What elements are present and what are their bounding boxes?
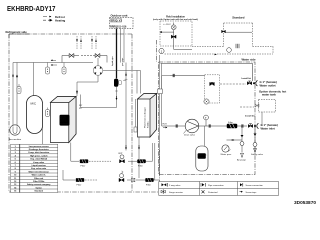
- svg-text:Standard: Standard: [232, 16, 244, 20]
- outlet junction: [253, 82, 255, 84]
- liquid line filter (black): [114, 79, 118, 87]
- drain valve: [184, 131, 187, 134]
- thermostatic valve circle: [171, 25, 176, 30]
- stop valve gas: [69, 54, 74, 58]
- 3wv motor: [204, 99, 209, 104]
- safety valve column: [254, 126, 256, 148]
- filter upper-right (black): [137, 159, 146, 163]
- refrigerant piping: inner loop top: [13, 62, 93, 64]
- second pipe down: [16, 63, 18, 126]
- svg-text:R3T: R3T: [119, 153, 124, 155]
- svg-text:Comp. inlet thermistor: Comp. inlet thermistor: [28, 151, 49, 154]
- air purge tee: [241, 135, 244, 137]
- expansion vessel stem: [203, 126, 205, 146]
- expansion valve E1: [119, 153, 125, 163]
- dashed pipe to tank: [240, 106, 254, 108]
- svg-text:Filter R134a: Filter R134a: [33, 180, 45, 183]
- svg-text:Safety valve: Safety valve: [251, 153, 264, 156]
- svg-text:liquid pipe: liquid pipe: [112, 55, 114, 66]
- dashed from 3wv to outlet: [220, 83, 246, 85]
- legend screw connection symbol: [240, 183, 264, 187]
- svg-text:(only with Option tank with ho: (only with Option tank with hot and cold…: [153, 18, 198, 21]
- water return into HX: [158, 89, 163, 94]
- shut-off valve: [171, 35, 176, 38]
- legend pipe connection symbol: [201, 183, 224, 187]
- svg-text:Filter: Filter: [81, 165, 86, 168]
- union a: [176, 124, 178, 127]
- svg-text:Water outlet: Water outlet: [260, 83, 276, 87]
- field pipe down right: [174, 46, 192, 49]
- thermistor R1T: [48, 63, 65, 68]
- legend shut-off valve symbol: [162, 183, 182, 187]
- svg-text:High press. switch: High press. switch: [30, 154, 48, 157]
- pipe to left with arrow: [160, 31, 174, 33]
- union b: [209, 124, 211, 127]
- water pipes HX to top: [159, 55, 161, 175]
- water filter (black): [227, 124, 238, 129]
- refrigerant side box: [9, 34, 160, 192]
- symbol legend table: [159, 182, 279, 196]
- flow arrow on link: [215, 54, 218, 56]
- expansion vessel: [196, 146, 208, 171]
- aquastat valve stem: [173, 23, 175, 47]
- svg-text:Surge arrester: Surge arrester: [169, 191, 183, 194]
- svg-text:Standard: Standard: [34, 190, 43, 193]
- svg-text:Filter: Filter: [77, 183, 82, 186]
- field refrigerant pipes with arrows: [77, 36, 96, 49]
- striped connector: [236, 44, 239, 48]
- 4wv top stem: [97, 58, 99, 66]
- svg-text:EKHBRD-ADY17: EKHBRD-ADY17: [7, 4, 56, 13]
- parts table: [11, 144, 58, 192]
- svg-text:M/C: M/C: [31, 102, 37, 106]
- filter upper-left (black): [80, 159, 89, 163]
- svg-text:Water pres.: Water pres.: [221, 153, 233, 156]
- svg-text:Water side: Water side: [242, 58, 256, 62]
- option 3-way valve box: [205, 75, 220, 103]
- svg-text:3D053870: 3D053870: [294, 200, 317, 205]
- 3-way valve: [210, 82, 215, 85]
- svg-text:R6T: R6T: [79, 105, 83, 107]
- safety valve body: [253, 143, 257, 147]
- svg-text:Screw taps: Screw taps: [246, 191, 258, 194]
- suction pipe stub: [41, 110, 43, 150]
- svg-text:H2O: H2O: [163, 124, 168, 126]
- standard inlet valve: [222, 30, 226, 33]
- R134a pipe down: [125, 63, 127, 151]
- outdoor unit box: [110, 18, 134, 29]
- compressor M/C: [27, 96, 43, 134]
- plate HX R134a (right): [138, 94, 157, 138]
- svg-text:Filter unit: Filter unit: [34, 177, 43, 180]
- svg-text:Pipe connection: Pipe connection: [208, 184, 224, 187]
- flow arrows on left pipes: [12, 74, 14, 77]
- svg-text:Air purge: Air purge: [237, 159, 247, 162]
- svg-text:Water inlet thermistor: Water inlet thermistor: [29, 170, 50, 173]
- branch to option 3wv: [170, 75, 205, 77]
- HX black label: [60, 115, 70, 126]
- pressure gauge: [222, 145, 231, 152]
- svg-text:Safety connect company: Safety connect company: [27, 183, 51, 186]
- outdoor unit model ERSQ: [111, 19, 122, 22]
- water box notch edge: [156, 40, 158, 62]
- pipes from outdoor unit: [116, 29, 118, 79]
- compressor discharge pipe: [33, 63, 35, 96]
- svg-text:Refrigerant side: Refrigerant side: [6, 30, 28, 34]
- thermistor R3T: [17, 87, 21, 94]
- safety valve tee: [254, 134, 257, 136]
- water top loop: [161, 64, 253, 82]
- filter lower-right (black): [145, 178, 154, 182]
- svg-text:Accumulator: Accumulator: [9, 138, 21, 141]
- svg-text:Plate heat exchanger: Plate heat exchanger: [144, 107, 147, 128]
- inlet fitting: [257, 123, 259, 128]
- flow arrows near line: [51, 59, 56, 61]
- svg-text:Exp. valve main: Exp. valve main: [31, 168, 47, 170]
- svg-text:Option: Option: [35, 186, 42, 189]
- svg-text:t > 55°C: t > 55°C: [163, 23, 171, 26]
- union c: [242, 124, 244, 127]
- svg-text:Liquid receiver: Liquid receiver: [32, 164, 46, 167]
- thermistor R2T: [62, 67, 66, 74]
- outlet shut-off valve: [247, 81, 251, 85]
- tank inlet valve: [255, 104, 259, 107]
- dashed link line: [165, 53, 274, 55]
- svg-text:Protected: Protected: [208, 191, 218, 194]
- expansion valve E2: [119, 171, 124, 182]
- legend: defrost line: [43, 15, 65, 19]
- plate HX R410A/R134a: [50, 97, 76, 143]
- standard dashed box: [224, 23, 253, 46]
- legend arrow symbol: [240, 191, 258, 194]
- inlet junction: [254, 125, 256, 127]
- svg-text:R7T: R7T: [79, 108, 83, 110]
- 4wv right line: [103, 70, 137, 72]
- water side box: [159, 62, 255, 175]
- legend screw symbol: [202, 190, 219, 194]
- svg-text:Outdoor unit: Outdoor unit: [111, 13, 128, 17]
- filter lower-left (black): [76, 178, 85, 182]
- svg-text:2 way valve: 2 way valve: [169, 185, 181, 187]
- svg-text:exchanger: exchanger: [60, 122, 68, 125]
- svg-text:R134a: R134a: [148, 121, 150, 128]
- sight glass: [119, 81, 121, 85]
- legend: heating line: [43, 19, 66, 23]
- temp sensor: [204, 115, 209, 120]
- air purge branch: [227, 139, 243, 141]
- field pipe to connector: [192, 45, 224, 47]
- air purge valve: [240, 142, 244, 146]
- svg-text:vessel: vessel: [199, 157, 205, 159]
- svg-text:Low pressure sensor: Low pressure sensor: [29, 145, 49, 148]
- svg-text:Drain valve: Drain valve: [184, 133, 196, 136]
- expansion run upper: [71, 143, 155, 181]
- inlet shut-off valve: [248, 124, 252, 128]
- standard drop to link: [253, 46, 274, 53]
- 4wv bottom loop to HX: [77, 76, 98, 97]
- svg-text:Water outlet th.: Water outlet th.: [32, 174, 47, 177]
- svg-text:Water inlet: Water inlet: [261, 126, 275, 130]
- svg-text:water tank: water tank: [261, 93, 276, 97]
- R134a discharge pipes: [135, 99, 137, 127]
- svg-text:ERSQ_V3: ERSQ_V3: [111, 21, 122, 23]
- filter outlet pipe: [81, 87, 117, 108]
- outlet fitting: [256, 81, 258, 86]
- svg-text:Exp. valve R410A: Exp. valve R410A: [30, 158, 47, 161]
- tank box: [259, 99, 276, 112]
- stop valve liquid: [95, 54, 100, 58]
- thermistor R4T: [46, 110, 50, 117]
- safety valve funnel: [253, 149, 256, 153]
- 4-way valve: [92, 64, 105, 77]
- svg-text:Screw connection: Screw connection: [246, 184, 264, 187]
- svg-text:gas pipe: gas pipe: [122, 57, 124, 66]
- svg-text:Heating: Heating: [55, 19, 66, 23]
- node 1 circle: [159, 48, 164, 53]
- pump: [185, 119, 199, 133]
- left pipe down to accumulator: [12, 63, 14, 126]
- stop valve line: [62, 55, 69, 57]
- field installation box: [160, 21, 192, 46]
- svg-text:4 way valve: 4 way valve: [33, 161, 45, 164]
- water main line: [162, 125, 247, 127]
- svg-text:Install kit: Install kit: [245, 115, 255, 118]
- 4wv to HX right pipes: [137, 71, 141, 94]
- legend flange symbol: [161, 189, 183, 194]
- standard solid pipe: [225, 31, 253, 33]
- svg-text:RRRQ011~016: RRRQ011~016: [110, 25, 127, 28]
- svg-text:Discharge thermistor: Discharge thermistor: [29, 148, 49, 151]
- svg-text:Filter: Filter: [146, 183, 151, 186]
- svg-text:Install kit: Install kit: [242, 77, 252, 80]
- sight glass lower: [132, 178, 135, 181]
- water inlet column: [261, 112, 263, 126]
- svg-text:Filter: Filter: [138, 165, 143, 168]
- expansion run lower: [63, 170, 160, 180]
- accumulator: [10, 125, 20, 135]
- node 3 circle: [227, 48, 232, 53]
